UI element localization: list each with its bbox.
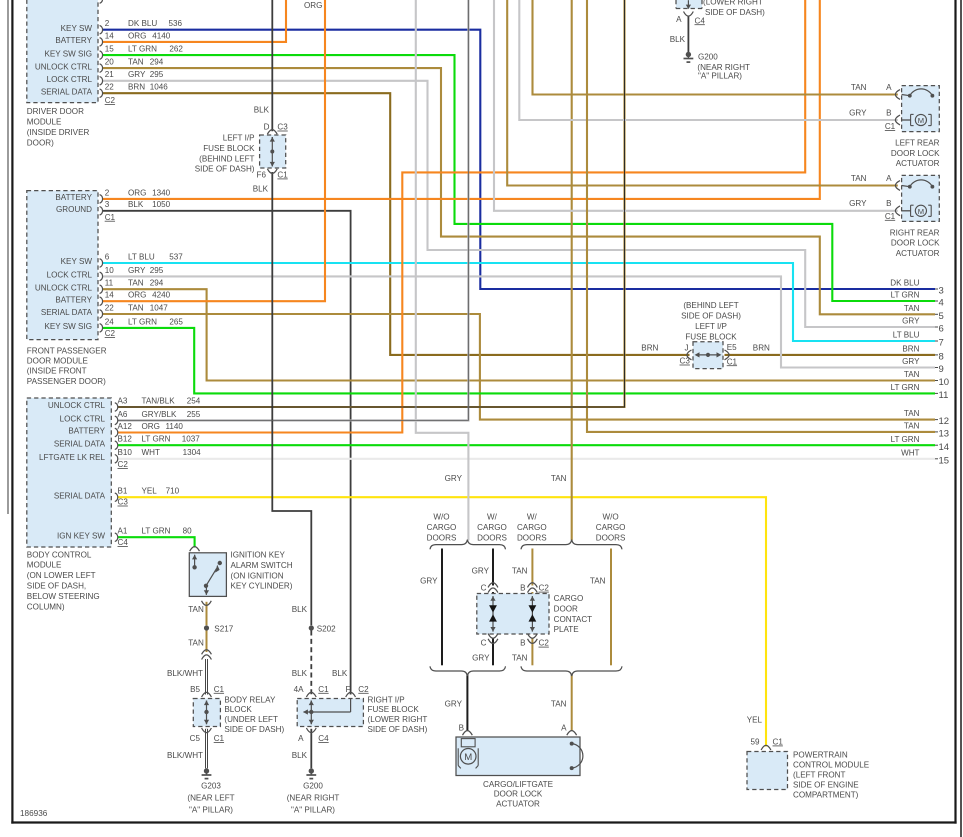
svg-text:DOOR LOCK: DOOR LOCK bbox=[494, 790, 543, 799]
svg-text:GRY: GRY bbox=[902, 317, 920, 326]
svg-text:DOOR): DOOR) bbox=[27, 138, 54, 147]
svg-text:D: D bbox=[264, 123, 270, 132]
svg-text:C3: C3 bbox=[680, 357, 691, 366]
svg-text:BRN: BRN bbox=[902, 345, 919, 354]
svg-text:ACTUATOR: ACTUATOR bbox=[896, 249, 940, 258]
svg-text:LEFT I/P: LEFT I/P bbox=[223, 134, 255, 143]
svg-text:12: 12 bbox=[939, 416, 950, 427]
svg-text:LOCK CTRL: LOCK CTRL bbox=[47, 75, 93, 84]
svg-text:536: 536 bbox=[169, 19, 183, 28]
svg-text:J: J bbox=[685, 344, 689, 353]
svg-text:MODULE: MODULE bbox=[27, 561, 62, 570]
svg-text:(INSIDE DRIVER: (INSIDE DRIVER bbox=[27, 128, 90, 137]
svg-text:GRY: GRY bbox=[472, 567, 490, 576]
svg-text:UNLOCK CTRL: UNLOCK CTRL bbox=[35, 62, 93, 71]
svg-text:KEY SW: KEY SW bbox=[61, 24, 93, 33]
svg-text:ORG: ORG bbox=[128, 31, 146, 40]
svg-text:ACTUATOR: ACTUATOR bbox=[496, 799, 540, 808]
svg-text:PLATE: PLATE bbox=[554, 625, 580, 634]
svg-text:BATTERY: BATTERY bbox=[55, 193, 92, 202]
svg-text:W/O: W/O bbox=[433, 513, 449, 522]
svg-text:KEY SW: KEY SW bbox=[61, 257, 93, 266]
svg-text:C2: C2 bbox=[105, 329, 116, 338]
svg-text:22: 22 bbox=[105, 83, 115, 92]
svg-text:A: A bbox=[676, 15, 682, 24]
svg-text:WHT: WHT bbox=[901, 448, 919, 457]
svg-text:BELOW STEERING: BELOW STEERING bbox=[27, 592, 100, 601]
svg-text:LOCK CTRL: LOCK CTRL bbox=[60, 415, 106, 424]
svg-text:TAN: TAN bbox=[590, 576, 606, 585]
svg-text:6: 6 bbox=[105, 252, 110, 261]
svg-text:W/O: W/O bbox=[603, 513, 619, 522]
svg-text:295: 295 bbox=[150, 266, 164, 275]
svg-text:(NEAR RIGHT: (NEAR RIGHT bbox=[697, 63, 750, 72]
svg-text:CARGO: CARGO bbox=[427, 523, 457, 532]
svg-text:DOORS: DOORS bbox=[517, 534, 547, 543]
svg-text:LT GRN: LT GRN bbox=[142, 435, 171, 444]
svg-text:B: B bbox=[459, 724, 464, 733]
svg-text:CARGO: CARGO bbox=[554, 594, 584, 603]
svg-text:TAN: TAN bbox=[512, 654, 528, 663]
svg-text:294: 294 bbox=[150, 58, 164, 67]
svg-text:B: B bbox=[886, 199, 891, 208]
svg-text:G200: G200 bbox=[698, 53, 718, 62]
svg-text:TAN: TAN bbox=[128, 279, 144, 288]
svg-text:C2: C2 bbox=[118, 460, 129, 469]
svg-text:B12: B12 bbox=[118, 435, 133, 444]
svg-text:1050: 1050 bbox=[152, 200, 171, 209]
svg-text:DOORS: DOORS bbox=[477, 534, 507, 543]
svg-text:SIDE OF DASH): SIDE OF DASH) bbox=[681, 312, 741, 321]
svg-text:8: 8 bbox=[939, 352, 944, 363]
svg-text:GRY/BLK: GRY/BLK bbox=[142, 410, 178, 419]
svg-text:SIDE OF ENGINE: SIDE OF ENGINE bbox=[793, 780, 859, 789]
svg-text:DOOR MODULE: DOOR MODULE bbox=[27, 357, 89, 366]
svg-text:710: 710 bbox=[166, 487, 180, 496]
svg-text:M: M bbox=[918, 116, 924, 125]
svg-text:SIDE OF DASH,: SIDE OF DASH, bbox=[27, 582, 86, 591]
svg-text:C1: C1 bbox=[277, 171, 288, 180]
svg-text:FUSE BLOCK: FUSE BLOCK bbox=[368, 705, 420, 714]
svg-text:C: C bbox=[481, 639, 487, 648]
svg-text:ACTUATOR: ACTUATOR bbox=[896, 159, 940, 168]
svg-text:C: C bbox=[481, 584, 487, 593]
svg-text:(ON LOWER LEFT: (ON LOWER LEFT bbox=[27, 571, 96, 580]
svg-text:LT GRN: LT GRN bbox=[891, 291, 920, 300]
svg-text:C1: C1 bbox=[214, 685, 225, 694]
svg-text:GRY: GRY bbox=[849, 199, 867, 208]
svg-text:10: 10 bbox=[105, 266, 115, 275]
svg-text:FUSE BLOCK: FUSE BLOCK bbox=[685, 332, 737, 341]
svg-text:GROUND: GROUND bbox=[56, 205, 92, 214]
svg-text:C5: C5 bbox=[190, 734, 201, 743]
svg-text:13: 13 bbox=[939, 429, 950, 440]
svg-text:CONTACT: CONTACT bbox=[554, 615, 593, 624]
svg-text:GRY: GRY bbox=[849, 108, 867, 117]
svg-text:UNLOCK CTRL: UNLOCK CTRL bbox=[48, 401, 106, 410]
svg-text:ORG: ORG bbox=[142, 422, 160, 431]
svg-text:3: 3 bbox=[939, 286, 944, 297]
svg-text:LT GRN: LT GRN bbox=[891, 435, 920, 444]
svg-text:A: A bbox=[886, 174, 892, 183]
svg-text:11: 11 bbox=[939, 390, 949, 401]
svg-text:UNLOCK CTRL: UNLOCK CTRL bbox=[35, 283, 93, 292]
svg-text:SIDE OF DASH): SIDE OF DASH) bbox=[224, 725, 284, 734]
svg-text:GRY: GRY bbox=[128, 266, 146, 275]
svg-text:B: B bbox=[520, 639, 525, 648]
svg-text:BLOCK: BLOCK bbox=[224, 705, 252, 714]
svg-text:GRY: GRY bbox=[420, 576, 438, 585]
svg-text:DRIVER DOOR: DRIVER DOOR bbox=[27, 107, 84, 116]
svg-text:B: B bbox=[520, 584, 525, 593]
svg-text:4: 4 bbox=[939, 298, 944, 309]
svg-text:C1: C1 bbox=[727, 357, 738, 366]
svg-text:S217: S217 bbox=[214, 625, 233, 634]
svg-text:YEL: YEL bbox=[142, 487, 158, 496]
svg-text:TAN: TAN bbox=[188, 605, 204, 614]
svg-text:ALARM SWITCH: ALARM SWITCH bbox=[231, 561, 293, 570]
svg-text:C1: C1 bbox=[885, 212, 896, 221]
svg-text:1037: 1037 bbox=[182, 435, 201, 444]
svg-text:SERIAL DATA: SERIAL DATA bbox=[54, 491, 106, 500]
svg-text:ORG: ORG bbox=[128, 291, 146, 300]
svg-text:14: 14 bbox=[105, 291, 115, 300]
svg-text:80: 80 bbox=[183, 527, 193, 536]
svg-text:POWERTRAIN: POWERTRAIN bbox=[793, 751, 848, 760]
svg-text:22: 22 bbox=[105, 303, 115, 312]
svg-text:9: 9 bbox=[939, 364, 944, 375]
svg-text:295: 295 bbox=[150, 70, 164, 79]
svg-text:BRN: BRN bbox=[641, 344, 658, 353]
svg-text:C1: C1 bbox=[885, 122, 896, 131]
svg-text:TAN: TAN bbox=[551, 700, 567, 709]
svg-text:LT GRN: LT GRN bbox=[128, 45, 157, 54]
svg-text:A1: A1 bbox=[118, 527, 128, 536]
svg-text:LT GRN: LT GRN bbox=[142, 527, 171, 536]
svg-text:M: M bbox=[464, 752, 472, 763]
svg-text:14: 14 bbox=[105, 31, 115, 40]
svg-text:LFTGATE LK REL: LFTGATE LK REL bbox=[39, 453, 105, 462]
svg-text:TAN: TAN bbox=[128, 58, 144, 67]
svg-text:B5: B5 bbox=[190, 685, 200, 694]
svg-text:CONTROL MODULE: CONTROL MODULE bbox=[793, 761, 870, 770]
svg-text:(LOWER RIGHT: (LOWER RIGHT bbox=[368, 715, 428, 724]
svg-text:15: 15 bbox=[939, 455, 950, 466]
svg-text:GRY: GRY bbox=[128, 70, 146, 79]
svg-text:262: 262 bbox=[169, 45, 183, 54]
svg-text:DOOR LOCK: DOOR LOCK bbox=[891, 149, 940, 158]
svg-text:B: B bbox=[886, 108, 891, 117]
svg-text:294: 294 bbox=[150, 279, 164, 288]
svg-text:GRY: GRY bbox=[445, 474, 463, 483]
svg-text:DOORS: DOORS bbox=[596, 534, 626, 543]
svg-text:ORG: ORG bbox=[304, 1, 322, 10]
svg-text:(ON IGNITION: (ON IGNITION bbox=[231, 571, 284, 580]
svg-text:LOCK CTRL: LOCK CTRL bbox=[47, 271, 93, 280]
svg-text:E5: E5 bbox=[727, 343, 737, 352]
svg-text:A: A bbox=[298, 734, 304, 743]
svg-text:C1: C1 bbox=[105, 213, 116, 222]
svg-text:BLK/WHT: BLK/WHT bbox=[167, 669, 203, 678]
svg-text:COLUMN): COLUMN) bbox=[27, 602, 65, 611]
svg-text:C2: C2 bbox=[539, 639, 550, 648]
svg-text:LT BLU: LT BLU bbox=[128, 252, 155, 261]
svg-text:(UNDER LEFT: (UNDER LEFT bbox=[224, 715, 278, 724]
svg-text:"A" PILLAR): "A" PILLAR) bbox=[189, 805, 233, 814]
svg-text:A3: A3 bbox=[118, 396, 128, 405]
svg-text:TAN: TAN bbox=[512, 567, 528, 576]
svg-text:DOORS: DOORS bbox=[427, 534, 457, 543]
svg-text:CARGO: CARGO bbox=[477, 523, 507, 532]
svg-text:TAN: TAN bbox=[904, 370, 920, 379]
svg-text:BLK: BLK bbox=[292, 669, 308, 678]
svg-text:TAN: TAN bbox=[904, 422, 920, 431]
svg-text:1340: 1340 bbox=[152, 188, 171, 197]
svg-text:GRY: GRY bbox=[902, 357, 920, 366]
svg-text:KEY SW SIG: KEY SW SIG bbox=[44, 322, 92, 331]
svg-text:1046: 1046 bbox=[150, 83, 169, 92]
svg-text:7: 7 bbox=[939, 338, 944, 349]
svg-text:W/: W/ bbox=[527, 513, 538, 522]
svg-text:LEFT REAR: LEFT REAR bbox=[895, 139, 940, 148]
svg-text:BRN: BRN bbox=[753, 344, 770, 353]
svg-text:TAN: TAN bbox=[188, 638, 204, 647]
svg-text:TAN: TAN bbox=[551, 474, 567, 483]
svg-text:BODY CONTROL: BODY CONTROL bbox=[27, 550, 92, 559]
svg-text:4A: 4A bbox=[294, 685, 305, 694]
svg-text:24: 24 bbox=[105, 317, 115, 326]
svg-text:GRY: GRY bbox=[472, 654, 490, 663]
svg-text:COMPARTMENT): COMPARTMENT) bbox=[793, 790, 859, 799]
svg-text:PASSENGER DOOR): PASSENGER DOOR) bbox=[27, 377, 106, 386]
svg-text:59: 59 bbox=[750, 738, 760, 747]
svg-text:FUSE BLOCK: FUSE BLOCK bbox=[203, 144, 255, 153]
svg-text:(LOWER RIGHT: (LOWER RIGHT bbox=[703, 0, 763, 7]
svg-text:C4: C4 bbox=[318, 734, 329, 743]
svg-text:IGN KEY SW: IGN KEY SW bbox=[57, 531, 105, 540]
svg-text:BLK: BLK bbox=[254, 105, 270, 114]
svg-text:SERIAL DATA: SERIAL DATA bbox=[41, 87, 93, 96]
svg-text:C2: C2 bbox=[105, 96, 116, 105]
svg-text:LT BLU: LT BLU bbox=[893, 331, 920, 340]
svg-text:KEY CYLINDER): KEY CYLINDER) bbox=[231, 582, 293, 591]
svg-text:254: 254 bbox=[187, 396, 201, 405]
svg-text:TAN: TAN bbox=[851, 83, 867, 92]
svg-text:LT GRN: LT GRN bbox=[128, 317, 157, 326]
svg-text:21: 21 bbox=[105, 70, 115, 79]
svg-text:SERIAL DATA: SERIAL DATA bbox=[41, 308, 93, 317]
svg-text:1140: 1140 bbox=[166, 422, 184, 431]
svg-text:MODULE: MODULE bbox=[27, 118, 62, 127]
svg-text:SIDE OF DASH): SIDE OF DASH) bbox=[195, 165, 255, 174]
svg-text:BATTERY: BATTERY bbox=[55, 295, 92, 304]
svg-text:KEY SW SIG: KEY SW SIG bbox=[44, 49, 92, 58]
svg-text:C3: C3 bbox=[277, 123, 288, 132]
svg-text:15: 15 bbox=[105, 45, 115, 54]
svg-text:S202: S202 bbox=[317, 625, 336, 634]
svg-text:CARGO/LIFTGATE: CARGO/LIFTGATE bbox=[483, 780, 554, 789]
svg-text:DK BLU: DK BLU bbox=[890, 279, 919, 288]
svg-text:"A" PILLAR): "A" PILLAR) bbox=[291, 805, 335, 814]
svg-text:FRONT PASSENGER: FRONT PASSENGER bbox=[27, 347, 107, 356]
svg-text:(NEAR LEFT: (NEAR LEFT bbox=[187, 793, 234, 802]
svg-text:C1: C1 bbox=[214, 734, 225, 743]
svg-text:BLK: BLK bbox=[332, 669, 348, 678]
svg-text:BATTERY: BATTERY bbox=[68, 427, 105, 436]
svg-text:A: A bbox=[886, 83, 892, 92]
svg-text:TAN: TAN bbox=[851, 174, 867, 183]
svg-text:GRY: GRY bbox=[445, 700, 463, 709]
svg-text:BLK/WHT: BLK/WHT bbox=[167, 751, 203, 760]
svg-text:186936: 186936 bbox=[20, 809, 48, 818]
svg-text:G200: G200 bbox=[303, 781, 323, 790]
svg-text:WHT: WHT bbox=[142, 448, 160, 457]
svg-text:TAN: TAN bbox=[904, 409, 920, 418]
svg-text:255: 255 bbox=[187, 410, 201, 419]
svg-text:2: 2 bbox=[105, 19, 110, 28]
svg-text:1304: 1304 bbox=[183, 448, 202, 457]
svg-text:"A" PILLAR): "A" PILLAR) bbox=[698, 72, 742, 81]
svg-text:YEL: YEL bbox=[747, 716, 763, 725]
svg-text:14: 14 bbox=[939, 442, 950, 453]
svg-text:LEFT I/P: LEFT I/P bbox=[695, 322, 727, 331]
svg-text:A6: A6 bbox=[118, 410, 128, 419]
svg-text:20: 20 bbox=[105, 58, 115, 67]
svg-text:A12: A12 bbox=[118, 422, 133, 431]
svg-text:C2: C2 bbox=[539, 584, 550, 593]
svg-text:BLK: BLK bbox=[128, 200, 144, 209]
svg-text:SIDE OF DASH): SIDE OF DASH) bbox=[705, 8, 765, 17]
svg-text:TAN: TAN bbox=[904, 304, 920, 313]
svg-text:BLK: BLK bbox=[292, 751, 308, 760]
svg-text:SIDE OF DASH): SIDE OF DASH) bbox=[368, 725, 428, 734]
svg-text:C4: C4 bbox=[118, 538, 129, 547]
svg-text:CARGO: CARGO bbox=[517, 523, 547, 532]
svg-text:(BEHIND LEFT: (BEHIND LEFT bbox=[683, 301, 738, 310]
svg-text:RIGHT REAR: RIGHT REAR bbox=[890, 228, 940, 237]
svg-text:BLK: BLK bbox=[292, 605, 308, 614]
svg-text:C2: C2 bbox=[358, 685, 369, 694]
svg-text:W/: W/ bbox=[487, 513, 498, 522]
svg-text:C4: C4 bbox=[695, 16, 706, 25]
svg-text:G203: G203 bbox=[201, 781, 221, 790]
svg-text:DOOR LOCK: DOOR LOCK bbox=[891, 239, 940, 248]
svg-text:C3: C3 bbox=[118, 498, 129, 507]
svg-text:SERIAL DATA: SERIAL DATA bbox=[54, 439, 106, 448]
svg-text:(INSIDE FRONT: (INSIDE FRONT bbox=[27, 367, 87, 376]
svg-text:M: M bbox=[918, 207, 924, 216]
svg-text:TAN/BLK: TAN/BLK bbox=[142, 396, 176, 405]
svg-text:F6: F6 bbox=[257, 171, 267, 180]
svg-text:BRN: BRN bbox=[128, 83, 145, 92]
svg-text:10: 10 bbox=[939, 377, 950, 388]
svg-text:IGNITION KEY: IGNITION KEY bbox=[231, 551, 286, 560]
svg-text:TAN: TAN bbox=[128, 303, 144, 312]
svg-text:(NEAR RIGHT: (NEAR RIGHT bbox=[287, 793, 340, 802]
svg-text:4140: 4140 bbox=[152, 31, 171, 40]
svg-text:A: A bbox=[561, 724, 567, 733]
svg-text:C1: C1 bbox=[773, 738, 784, 747]
svg-text:BLK: BLK bbox=[253, 185, 269, 194]
svg-text:C1: C1 bbox=[318, 685, 329, 694]
svg-text:6: 6 bbox=[939, 324, 944, 335]
svg-text:4240: 4240 bbox=[152, 291, 171, 300]
svg-text:B1: B1 bbox=[118, 487, 128, 496]
svg-text:RIGHT I/P: RIGHT I/P bbox=[368, 695, 405, 704]
svg-text:LT GRN: LT GRN bbox=[891, 383, 920, 392]
svg-text:11: 11 bbox=[105, 279, 114, 288]
svg-text:265: 265 bbox=[169, 317, 183, 326]
svg-text:(BEHIND LEFT: (BEHIND LEFT bbox=[199, 154, 254, 163]
svg-text:ORG: ORG bbox=[128, 188, 146, 197]
svg-text:CARGO: CARGO bbox=[596, 523, 626, 532]
svg-text:537: 537 bbox=[169, 252, 183, 261]
svg-text:2: 2 bbox=[105, 188, 110, 197]
svg-text:3: 3 bbox=[105, 200, 110, 209]
svg-text:1047: 1047 bbox=[150, 303, 169, 312]
svg-text:BODY RELAY: BODY RELAY bbox=[224, 695, 276, 704]
svg-text:(LEFT FRONT: (LEFT FRONT bbox=[793, 771, 846, 780]
svg-text:DOOR: DOOR bbox=[554, 604, 578, 613]
svg-text:B10: B10 bbox=[118, 448, 133, 457]
svg-text:DK BLU: DK BLU bbox=[128, 19, 157, 28]
svg-text:5: 5 bbox=[939, 311, 944, 322]
svg-text:BLK: BLK bbox=[670, 35, 686, 44]
svg-text:BATTERY: BATTERY bbox=[55, 36, 92, 45]
